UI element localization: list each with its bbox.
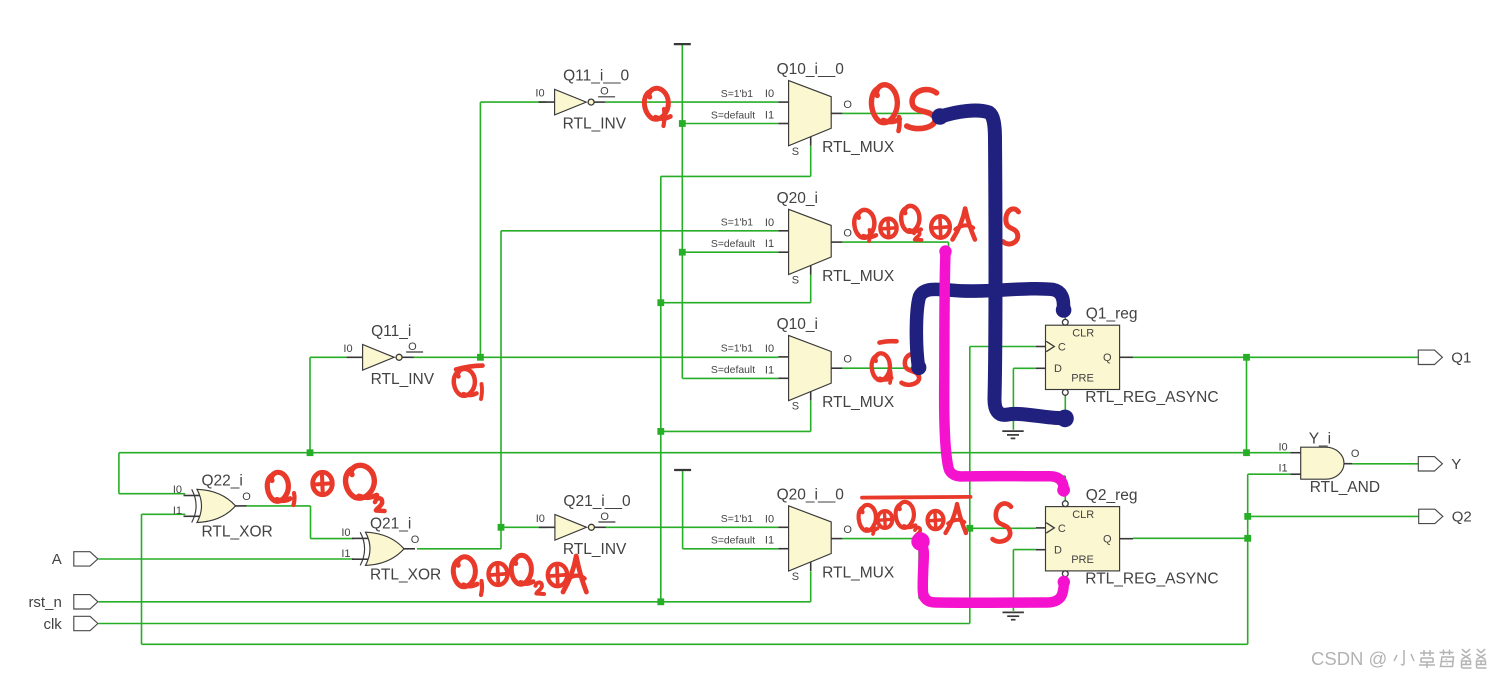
svg-text:I0: I0 bbox=[343, 343, 352, 355]
svg-text:S=default: S=default bbox=[711, 365, 755, 376]
svg-text:RTL_MUX: RTL_MUX bbox=[822, 268, 895, 285]
svg-text:Q2_reg: Q2_reg bbox=[1086, 487, 1138, 504]
wire Q1_reg D to ground bbox=[1012, 368, 1014, 430]
svg-text:I0: I0 bbox=[173, 484, 182, 496]
wire Q11_i output to Q10_i I0 bbox=[413, 356, 778, 358]
svg-text:Q21_i: Q21_i bbox=[370, 516, 411, 533]
power constant 1'b1 terminal lower bbox=[674, 469, 691, 471]
svg-text:I0: I0 bbox=[765, 88, 774, 100]
wire Q21_i output riser to Q20_i I0 bbox=[500, 231, 502, 549]
annotation red Q1 at Q11_i__0 output bbox=[644, 88, 668, 119]
node S to Q10_i bbox=[657, 428, 664, 435]
wire constant 1'b1 vertical upper bbox=[681, 45, 683, 378]
wire Q1 rail drop to Q22_i I0 bbox=[118, 453, 120, 494]
wire Q11_i__0 output to Q10_i__0 I0 bbox=[606, 101, 779, 103]
node Q21_i out to Q21_i__0 bbox=[498, 524, 505, 531]
annotation magenta marker path Q20_i output to Q2_reg CLR bbox=[944, 252, 1064, 492]
wire to Q2_reg CLR bbox=[949, 475, 1066, 477]
wire clk to Q2_reg C bbox=[970, 527, 1036, 529]
svg-text:I1: I1 bbox=[173, 505, 182, 517]
wire 1'b1 to Q20_i__0 I1 bbox=[683, 548, 779, 550]
wire Q20_i output drop to Q2_reg CLR bbox=[948, 242, 950, 476]
svg-text:Y_i: Y_i bbox=[1309, 430, 1331, 447]
svg-text:S: S bbox=[792, 571, 799, 583]
wire to Q2 port bbox=[1248, 515, 1419, 517]
svg-text:I0: I0 bbox=[765, 513, 774, 525]
annotation navy marker path Q10_i output to Q1_reg CLR bbox=[916, 289, 1063, 367]
wire clk rail bbox=[99, 623, 970, 625]
wire Q10_i output riser to Q1_reg CLR bbox=[919, 290, 921, 369]
svg-text:O: O bbox=[600, 511, 609, 523]
wire Q2_reg Q bbox=[1133, 537, 1248, 539]
svg-text:RTL_XOR: RTL_XOR bbox=[202, 523, 273, 540]
wire A to Q21_i I1 bbox=[99, 558, 354, 560]
svg-text:I1: I1 bbox=[765, 535, 774, 547]
annotation red Q1bar at Q11_i output bbox=[456, 366, 483, 370]
svg-text:I1: I1 bbox=[341, 548, 350, 560]
annotation red Q1 xor Q2 xor A at Q21_i output bbox=[453, 557, 475, 587]
node Q1 rail to Q11_i input bbox=[307, 449, 314, 456]
wire Q2_reg D to ground bbox=[1012, 550, 1014, 611]
wire S stub Q20_i bbox=[810, 275, 812, 303]
mux Q10_i bbox=[711, 316, 895, 413]
svg-text:D: D bbox=[1054, 544, 1062, 556]
port A input bbox=[52, 551, 98, 568]
wire 1'b1 to Q10_i__0 I1 bbox=[682, 123, 778, 125]
svg-text:RTL_AND: RTL_AND bbox=[1310, 479, 1380, 496]
svg-text:Y: Y bbox=[1451, 456, 1461, 473]
svg-text:PRE: PRE bbox=[1071, 554, 1094, 566]
wire Q2 vertical Y_i I1 / port / rail bbox=[1247, 474, 1249, 644]
svg-text:S=default: S=default bbox=[711, 110, 755, 121]
wire clk to Q1_reg C bbox=[970, 346, 1036, 348]
annotation red Q1bar S at Q10_i output bbox=[880, 341, 897, 342]
wire to Y_i I1 bbox=[1248, 473, 1291, 475]
node S at rst_n rail bbox=[657, 598, 664, 605]
annotation navy marker path Q10_i__0 output to Q1_reg PRE bbox=[941, 111, 1063, 419]
wire Q21_i output bbox=[417, 548, 501, 550]
xor gate Q22_i bbox=[173, 473, 273, 541]
wire Q21_i__0 output to Q20_i__0 I0 bbox=[606, 526, 779, 528]
svg-text:CSDN @: CSDN @ bbox=[1311, 648, 1387, 669]
svg-text:Q11_i: Q11_i bbox=[371, 323, 411, 340]
svg-text:RTL_INV: RTL_INV bbox=[371, 371, 435, 388]
wire S stub Q20_i__0 bbox=[810, 571, 812, 602]
svg-text:RTL_INV: RTL_INV bbox=[563, 116, 627, 133]
port Q2 output bbox=[1419, 509, 1472, 526]
svg-text:O: O bbox=[843, 524, 852, 536]
svg-text:CLR: CLR bbox=[1072, 509, 1094, 521]
inverter Q21_i__0 bbox=[536, 493, 631, 558]
svg-text:S: S bbox=[792, 275, 799, 287]
wire Q2 rail riser to Q22_i I1 bbox=[141, 514, 143, 644]
wire Q10_i__0 output bbox=[842, 112, 995, 114]
wire Q2_reg PRE bubble drop bbox=[1064, 576, 1066, 598]
svg-text:I0: I0 bbox=[765, 343, 774, 355]
wire clk vertical to C pins bbox=[969, 347, 971, 624]
watermark CSDN @xiaocaomeibaba bbox=[1311, 648, 1487, 669]
port Y output bbox=[1418, 456, 1461, 473]
svg-text:O: O bbox=[242, 491, 251, 503]
wire 1'b1 to Q20_i I1 bbox=[682, 251, 778, 253]
wire Q20_i__0 output bbox=[842, 538, 919, 540]
mux Q20_i__0 bbox=[711, 486, 895, 583]
node S to Q20_i bbox=[657, 299, 664, 306]
svg-text:clk: clk bbox=[43, 616, 62, 633]
power constant 1'b1 terminal upper bbox=[674, 43, 691, 45]
wire Q10_i output bbox=[842, 367, 920, 369]
svg-text:RTL_MUX: RTL_MUX bbox=[822, 139, 895, 156]
node 1'b1 to Q10_i__0 I1 bbox=[679, 120, 686, 127]
wire rst_n rail bbox=[99, 601, 811, 603]
wire Q1_reg D link bbox=[1013, 367, 1035, 369]
annotation red Q1 xor Q2 xor A S at Q20_i output bbox=[854, 210, 874, 238]
svg-text:O: O bbox=[411, 534, 420, 546]
flip-flop Q2_reg bbox=[1036, 487, 1219, 588]
svg-text:S=1'b1: S=1'b1 bbox=[721, 514, 754, 525]
svg-text:RTL_REG_ASYNC: RTL_REG_ASYNC bbox=[1085, 570, 1218, 587]
wire Y_i output to Y port bbox=[1352, 463, 1418, 465]
svg-text:O: O bbox=[843, 354, 852, 366]
svg-text:PRE: PRE bbox=[1071, 373, 1094, 385]
xor gate Q21_i bbox=[341, 516, 441, 584]
svg-text:O: O bbox=[408, 341, 417, 353]
svg-text:I0: I0 bbox=[341, 527, 350, 539]
svg-text:RTL_MUX: RTL_MUX bbox=[822, 564, 895, 581]
svg-text:S=1'b1: S=1'b1 bbox=[721, 218, 754, 229]
svg-text:RTL_INV: RTL_INV bbox=[563, 541, 627, 558]
wire S select vertical from rst_n bbox=[660, 176, 662, 601]
svg-text:D: D bbox=[1054, 363, 1062, 375]
wire into Q11_i I0 bbox=[310, 356, 347, 358]
svg-text:S=default: S=default bbox=[711, 239, 755, 250]
svg-text:RTL_XOR: RTL_XOR bbox=[370, 566, 441, 583]
svg-text:Q20_i__0: Q20_i__0 bbox=[777, 486, 845, 503]
node 1'b1 to Q20_i I1 bbox=[679, 249, 686, 256]
svg-text:C: C bbox=[1058, 523, 1066, 535]
svg-text:A: A bbox=[52, 551, 62, 568]
svg-text:Q10_i: Q10_i bbox=[777, 316, 818, 333]
wire Q20_i output bbox=[842, 241, 948, 243]
wire to Q2_reg PRE bbox=[919, 598, 1065, 600]
svg-text:Q: Q bbox=[1103, 352, 1112, 364]
wire Q22_i output drop to Q21_i I0 bbox=[310, 506, 312, 539]
svg-text:C: C bbox=[1058, 342, 1066, 354]
wire Q1 rail riser to Q11_i input bbox=[309, 357, 311, 452]
annotation magenta marker path Q20_i__0 output to Q2_reg PRE bbox=[918, 541, 1064, 603]
wire into Q21_i__0 I0 bbox=[501, 526, 547, 528]
node clk to Q2_reg C bbox=[966, 525, 973, 532]
svg-text:I0: I0 bbox=[765, 217, 774, 229]
svg-text:O: O bbox=[843, 228, 852, 240]
annotation red Q1 xor Q2 at Q22_i output bbox=[267, 472, 288, 501]
wire into Q11_i__0 I0 bbox=[480, 101, 546, 103]
svg-text:S=1'b1: S=1'b1 bbox=[721, 344, 754, 355]
svg-text:I1: I1 bbox=[765, 110, 774, 122]
wire 1'b1 to Q10_i I1 bbox=[682, 377, 778, 379]
svg-text:Q21_i__0: Q21_i__0 bbox=[563, 493, 631, 510]
wire Q1_reg Q to Q1 port bbox=[1133, 356, 1418, 358]
node Q1 output branch bbox=[1243, 354, 1250, 361]
svg-text:Q11_i__0: Q11_i__0 bbox=[563, 68, 629, 85]
mux Q20_i bbox=[711, 190, 895, 287]
svg-text:S=default: S=default bbox=[711, 536, 755, 547]
svg-text:O: O bbox=[843, 99, 852, 111]
svg-text:S=1'b1: S=1'b1 bbox=[721, 89, 754, 100]
svg-text:S: S bbox=[792, 401, 799, 413]
mux Q10_i__0 bbox=[711, 61, 895, 158]
wire Q11_i output riser to Q11_i__0 input bbox=[479, 102, 481, 357]
svg-text:S: S bbox=[792, 146, 799, 158]
wire S to Q20_i bbox=[661, 302, 811, 304]
annotation red Q1S at Q10_i__0 output bbox=[871, 85, 897, 123]
node Q1 rail at Y_i I0 bbox=[1243, 449, 1250, 456]
wire constant 1'b1 vertical lower bbox=[682, 470, 684, 549]
svg-text:Q2: Q2 bbox=[1452, 509, 1472, 526]
wire drop to Q1_reg CLR bubble bbox=[1064, 290, 1066, 320]
annotation red overline Q1 xor Q2 xor A S at Q20_i__0 output bbox=[862, 495, 971, 500]
wire S stub Q10_i bbox=[810, 401, 812, 432]
port clk input bbox=[43, 616, 97, 633]
wire to Q20_i I0 bbox=[501, 230, 778, 232]
wire S stub Q10_i__0 bbox=[810, 146, 812, 176]
svg-text:RTL_REG_ASYNC: RTL_REG_ASYNC bbox=[1085, 389, 1218, 406]
wire drop to Q2_reg CLR bubble bbox=[1064, 476, 1066, 501]
and gate Y_i bbox=[1279, 430, 1381, 496]
svg-text:Q1: Q1 bbox=[1451, 350, 1471, 367]
svg-text:RTL_MUX: RTL_MUX bbox=[822, 394, 895, 411]
node Q2_reg Q branch bbox=[1244, 535, 1251, 542]
svg-text:I1: I1 bbox=[765, 238, 774, 250]
port rst_n input bbox=[28, 594, 97, 611]
port Q1 output bbox=[1418, 350, 1471, 367]
ground under Q1_reg bbox=[1002, 431, 1023, 438]
wire Q1 feedback rail bbox=[119, 452, 1290, 454]
inverter Q11_i__0 bbox=[535, 68, 629, 133]
wire S to Q10_i bbox=[661, 430, 811, 432]
wire into Q22_i I0 bbox=[119, 493, 185, 495]
svg-text:O: O bbox=[600, 86, 609, 98]
wire to Q1_reg CLR bbox=[920, 289, 1065, 291]
wire Q10_i__0 output drop to Q1_reg PRE bbox=[994, 113, 996, 412]
svg-text:I0: I0 bbox=[1279, 442, 1288, 454]
flip-flop Q1_reg bbox=[1036, 306, 1219, 407]
wire S to Q10_i__0 bbox=[661, 175, 811, 177]
svg-text:Q1_reg: Q1_reg bbox=[1086, 306, 1138, 323]
svg-text:Q20_i: Q20_i bbox=[777, 190, 818, 207]
svg-text:Q10_i__0: Q10_i__0 bbox=[777, 61, 845, 78]
svg-text:I0: I0 bbox=[536, 513, 545, 525]
wire Q2_reg D link bbox=[1013, 549, 1035, 551]
node Q2 port branch bbox=[1244, 513, 1251, 520]
wire Q1 drop to Y_i I0 rail bbox=[1246, 357, 1248, 452]
wire Q1_reg PRE bubble drop bbox=[1064, 395, 1066, 412]
node Q11_i output junction bbox=[477, 354, 484, 361]
wire to Q1_reg PRE bbox=[995, 412, 1065, 414]
wire into Q21_i I0 bbox=[311, 538, 354, 540]
svg-text:I1: I1 bbox=[765, 364, 774, 376]
ground under Q2_reg bbox=[1003, 612, 1024, 619]
svg-text:O: O bbox=[1351, 448, 1360, 460]
svg-text:I1: I1 bbox=[1279, 463, 1288, 475]
wire into Q22_i I1 bbox=[142, 513, 186, 515]
svg-text:I0: I0 bbox=[535, 88, 544, 100]
wire Q22_i output bbox=[246, 505, 310, 507]
svg-text:Q22_i: Q22_i bbox=[202, 473, 243, 490]
svg-text:CLR: CLR bbox=[1072, 328, 1094, 340]
wire Q2 feedback rail bbox=[142, 643, 1248, 645]
wire Q20_i__0 output drop to Q2_reg PRE bbox=[918, 539, 920, 599]
svg-text:rst_n: rst_n bbox=[28, 594, 61, 611]
svg-text:Q: Q bbox=[1103, 534, 1112, 546]
inverter Q11_i bbox=[343, 323, 434, 388]
